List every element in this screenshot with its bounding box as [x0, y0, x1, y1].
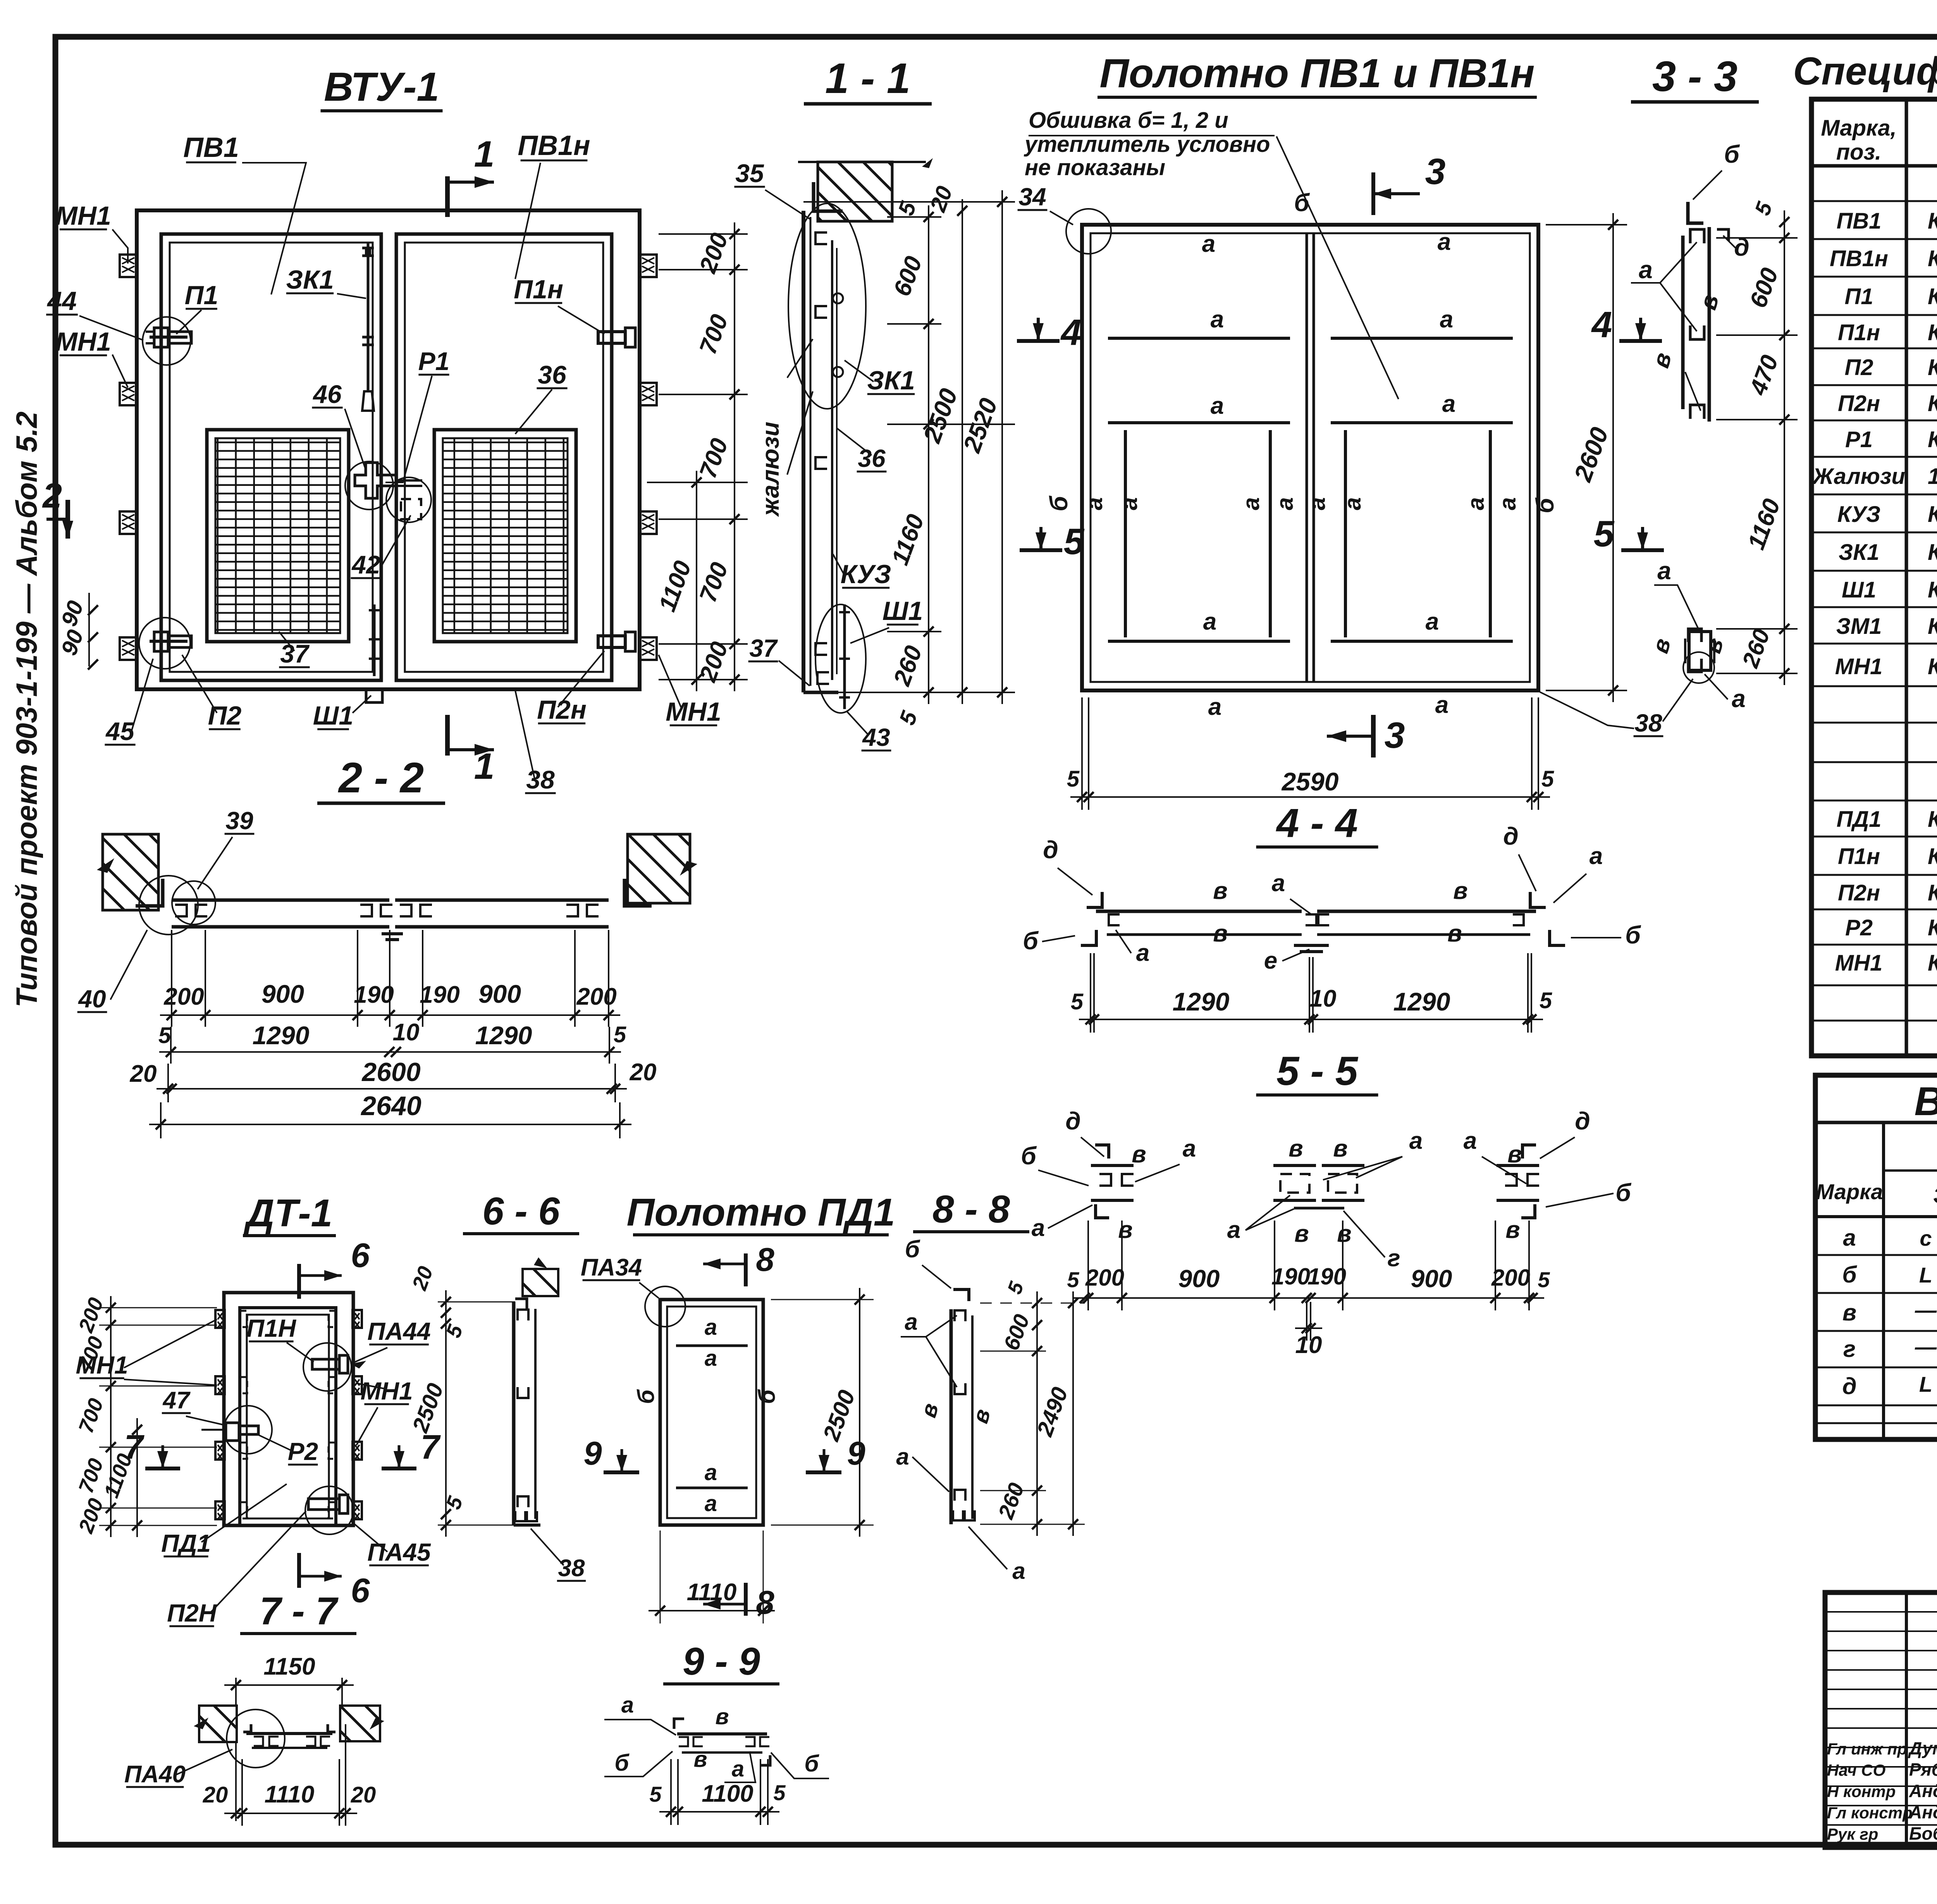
svg-text:а: а — [1440, 306, 1453, 333]
svg-text:Обшивка б= 1, 2 и: Обшивка б= 1, 2 и — [1029, 108, 1228, 133]
stamp outer — [1825, 1592, 1937, 1847]
svg-text:Полотно ПД1: Полотно ПД1 — [627, 1191, 895, 1234]
svg-text:а: а — [705, 1491, 717, 1516]
svg-text:б: б — [1023, 927, 1039, 955]
svg-text:в: в — [1294, 1221, 1309, 1247]
leaf profile vertical 1-1 — [802, 211, 805, 692]
door dashed brackets — [240, 1311, 247, 1327]
hinge P2 bottom-left — [150, 640, 188, 643]
section flag 8 top — [744, 1253, 748, 1286]
2-2 left frame angle — [136, 879, 163, 906]
svg-text:Рябуха: Рябуха — [1909, 1759, 1937, 1780]
svg-text:1290: 1290 — [1173, 987, 1230, 1016]
wall hatch block 1-1 — [818, 162, 892, 221]
panel PD1 rect — [660, 1300, 763, 1525]
corner circle 34 — [1066, 209, 1111, 254]
9-9 profile — [677, 1732, 767, 1735]
svg-text:Нач СО: Нач СО — [1827, 1761, 1885, 1779]
section flag 9 right — [806, 1470, 841, 1474]
svg-text:КМ - 15: КМ - 15 — [1928, 577, 1937, 603]
svg-text:5 - 5: 5 - 5 — [1276, 1048, 1359, 1094]
right louvre grille — [434, 430, 576, 642]
svg-text:10: 10 — [1310, 985, 1337, 1012]
svg-text:5: 5 — [1067, 766, 1080, 792]
jalousie plane 1-1 — [831, 240, 833, 680]
svg-text:ПД1: ПД1 — [161, 1529, 211, 1557]
2-2 dim chain row3 — [157, 1088, 627, 1090]
section flag 8 bottom — [744, 1583, 748, 1616]
svg-text:б: б — [905, 1236, 920, 1263]
section flag 1 top — [445, 176, 450, 217]
3-3 d bracket — [1717, 229, 1729, 241]
5-5 left node — [1095, 1145, 1109, 1159]
svg-text:8: 8 — [756, 1241, 774, 1278]
svg-text:а: а — [1227, 1217, 1240, 1243]
svg-text:а: а — [1238, 497, 1264, 510]
svg-text:П2н: П2н — [537, 695, 587, 725]
svg-text:в: в — [1213, 920, 1227, 947]
svg-text:Эскиз: Эскиз — [1933, 1183, 1937, 1208]
svg-text:а: а — [1202, 231, 1215, 257]
svg-text:3: 3 — [1425, 151, 1446, 192]
7-7 left wall block — [199, 1706, 237, 1742]
svg-text:5: 5 — [649, 1782, 662, 1806]
svg-text:1 - 1: 1 - 1 — [825, 55, 910, 102]
gate right dim chain 200-700-700-700-200 — [734, 222, 735, 691]
svg-text:б: б — [1045, 495, 1073, 511]
svg-text:4: 4 — [1591, 304, 1612, 345]
svg-text:Ведомость элементов: Ведомость элементов — [1914, 1079, 1937, 1124]
svg-text:45: 45 — [105, 717, 135, 745]
spec table column lines — [1905, 99, 1908, 1056]
svg-text:КМ - 16: КМ - 16 — [1928, 320, 1937, 345]
svg-text:20: 20 — [203, 1782, 228, 1808]
svg-text:ЗМ1: ЗМ1 — [1836, 614, 1882, 639]
svg-text:а: а — [1843, 1225, 1856, 1251]
svg-text:200: 200 — [576, 983, 616, 1010]
3-3 bottom node — [1689, 632, 1711, 670]
svg-text:д: д — [1043, 836, 1058, 864]
section flag 5 left — [1020, 548, 1062, 552]
6-6 wall hatch — [523, 1269, 558, 1296]
svg-text:46: 46 — [312, 380, 342, 408]
svg-text:—: — — [1915, 1334, 1937, 1359]
svg-text:б: б — [754, 1389, 780, 1404]
svg-text:КУЗ: КУЗ — [841, 559, 891, 589]
svg-text:1290: 1290 — [253, 1021, 310, 1050]
svg-text:а: а — [1012, 1558, 1025, 1584]
svg-text:200: 200 — [1085, 1265, 1124, 1291]
svg-text:МН1: МН1 — [666, 697, 721, 726]
2-2 right end channels — [566, 905, 578, 916]
2-2 center channels — [360, 905, 372, 916]
svg-text:38: 38 — [526, 765, 555, 794]
svg-text:П1н: П1н — [1838, 320, 1880, 345]
svg-text:1290: 1290 — [1393, 987, 1450, 1016]
svg-text:КМ - 14: КМ - 14 — [1928, 246, 1937, 271]
4-4 dim chain — [1079, 1019, 1543, 1020]
door outer frame — [224, 1293, 353, 1525]
svg-text:1.494-27 вып. 7: 1.494-27 вып. 7 — [1928, 464, 1937, 489]
door handle R2 node 47 — [226, 1423, 239, 1441]
svg-text:а: а — [1435, 692, 1448, 718]
svg-text:200: 200 — [163, 983, 204, 1010]
svg-text:б: б — [614, 1750, 630, 1776]
svg-text:П1н: П1н — [514, 275, 563, 304]
handle R1 — [355, 463, 396, 498]
section flag 7 left — [145, 1467, 180, 1470]
svg-text:Бобрук: Бобрук — [1909, 1823, 1937, 1844]
svg-text:П1Н: П1Н — [246, 1314, 297, 1342]
1-1 right dim chain 600-1160-260 — [928, 205, 929, 704]
svg-text:П2: П2 — [1845, 355, 1873, 380]
svg-text:поз.: поз. — [1836, 139, 1882, 165]
2-2 detail circles — [139, 876, 198, 935]
svg-text:а: а — [1442, 391, 1455, 417]
bubble ZK1 outline — [788, 203, 866, 409]
svg-text:ПВ1н: ПВ1н — [518, 130, 590, 161]
svg-text:П1: П1 — [185, 281, 218, 310]
vedomost row lines — [1815, 1254, 1937, 1256]
svg-text:4: 4 — [1060, 312, 1082, 353]
svg-text:в: в — [1447, 920, 1462, 947]
svg-text:5: 5 — [773, 1780, 786, 1805]
panel PV1 outer rect — [1082, 225, 1538, 690]
svg-text:Андриевская: Андриевская — [1909, 1802, 1937, 1822]
2-2 dim chain row1 — [160, 1014, 620, 1016]
5-5 middle nodes — [1273, 1164, 1316, 1167]
5-5 dim chain — [1073, 1297, 1544, 1299]
2-2 right frame angle — [624, 879, 652, 906]
label 38 panel — [1540, 692, 1634, 728]
8-8 strip — [950, 1309, 953, 1524]
7-7 leaf profile — [246, 1732, 332, 1735]
note leader line — [1276, 136, 1399, 399]
gate right leaf — [396, 234, 612, 680]
svg-text:б: б — [1294, 189, 1310, 217]
PD1 internal lines — [676, 1345, 748, 1347]
2-2 center pin — [382, 932, 403, 935]
svg-text:5: 5 — [158, 1023, 171, 1048]
svg-text:КМ - 15: КМ - 15 — [1928, 614, 1937, 639]
svg-text:8 - 8: 8 - 8 — [932, 1188, 1010, 1231]
svg-text:а: а — [1464, 1128, 1477, 1154]
svg-text:в: в — [1337, 1221, 1351, 1247]
svg-text:900: 900 — [1411, 1265, 1452, 1293]
panel right dim 2600 — [1612, 213, 1614, 702]
svg-text:в: в — [1507, 1141, 1522, 1168]
svg-text:Андриевская: Андриевская — [1909, 1781, 1937, 1801]
svg-text:а: а — [1208, 694, 1221, 720]
svg-text:900: 900 — [1178, 1265, 1220, 1293]
svg-text:ВТУ-1: ВТУ-1 — [324, 64, 439, 110]
svg-text:д: д — [1842, 1373, 1856, 1399]
door sub dim 1100 — [136, 1418, 138, 1537]
svg-text:П1н: П1н — [1838, 844, 1880, 869]
svg-text:П2Н: П2Н — [167, 1599, 217, 1627]
svg-text:КУЗ: КУЗ — [1837, 502, 1880, 527]
latch ZK1 rod — [367, 242, 370, 391]
shpingalet Sh1 bottom-center rod — [373, 604, 376, 676]
svg-text:38: 38 — [558, 1555, 585, 1582]
svg-text:КМ - 17: КМ - 17 — [1928, 502, 1937, 527]
4-4 left end — [1087, 892, 1102, 907]
svg-text:д: д — [1503, 822, 1519, 850]
5-5 dim 10 — [1295, 1327, 1322, 1329]
svg-text:1100: 1100 — [702, 1780, 753, 1807]
svg-text:ПВ1н: ПВ1н — [1830, 246, 1888, 271]
svg-text:1110: 1110 — [265, 1781, 315, 1808]
svg-text:МН1: МН1 — [55, 327, 111, 356]
svg-text:а: а — [732, 1756, 744, 1782]
PD1 dim 2500 — [859, 1288, 860, 1537]
gate outer frame — [137, 210, 640, 689]
svg-text:39: 39 — [225, 807, 253, 835]
bubble Sh1 outline — [815, 604, 866, 713]
svg-text:жалюзи: жалюзи — [757, 422, 784, 517]
section flag 9 left — [604, 1470, 639, 1474]
svg-text:Ш1: Ш1 — [882, 596, 923, 626]
vedomost header lines — [1882, 1122, 1885, 1439]
svg-text:10: 10 — [393, 1019, 420, 1046]
svg-text:ЗК1: ЗК1 — [867, 366, 915, 395]
svg-text:а: а — [1639, 256, 1653, 284]
8-8 dim chain inner — [1036, 1291, 1038, 1536]
svg-text:ЗК1: ЗК1 — [286, 265, 334, 294]
2-2 left end channels — [175, 905, 187, 916]
svg-text:КМ - 16: КМ - 16 — [1928, 950, 1937, 976]
svg-text:9: 9 — [583, 1435, 602, 1472]
8-8 dim 2490 — [1072, 1291, 1074, 1536]
svg-text:КМ - 14: КМ - 14 — [1928, 807, 1937, 832]
section flag 1 bottom — [445, 715, 450, 756]
svg-text:МН1: МН1 — [1835, 950, 1882, 976]
section flag 7 right — [382, 1467, 416, 1470]
7-7 dims below — [224, 1813, 357, 1814]
latch keeper dashed square 42 — [401, 499, 421, 519]
svg-text:2590: 2590 — [1281, 767, 1339, 796]
svg-text:а: а — [1272, 870, 1285, 897]
svg-text:а: а — [1340, 497, 1366, 510]
svg-text:КМ - 16: КМ - 16 — [1928, 844, 1937, 869]
svg-text:5: 5 — [1594, 513, 1615, 554]
MN1 plates left side — [120, 255, 137, 277]
svg-text:а: а — [1211, 306, 1224, 333]
svg-text:2640: 2640 — [360, 1091, 421, 1121]
svg-text:г: г — [1387, 1245, 1400, 1272]
svg-text:МН1: МН1 — [1835, 654, 1882, 679]
svg-text:ПД1: ПД1 — [1837, 807, 1882, 832]
svg-text:а: а — [1495, 497, 1521, 510]
door left dim chain — [110, 1296, 112, 1537]
8-8 top bracket b — [953, 1289, 969, 1301]
svg-text:7 - 7: 7 - 7 — [260, 1589, 339, 1633]
svg-text:а: а — [705, 1460, 717, 1485]
svg-text:Гл констр: Гл констр — [1827, 1804, 1913, 1822]
hinge P1n top-right — [598, 332, 625, 343]
svg-text:а: а — [1304, 497, 1330, 510]
svg-text:6: 6 — [351, 1236, 370, 1274]
svg-text:Р1: Р1 — [418, 347, 450, 375]
svg-text:а: а — [1426, 608, 1439, 635]
2-2 leaf bottom line — [172, 925, 389, 929]
svg-text:37: 37 — [749, 634, 778, 662]
svg-text:а: а — [621, 1692, 634, 1718]
svg-text:5: 5 — [1071, 989, 1084, 1014]
svg-text:а: а — [896, 1444, 909, 1470]
svg-text:2: 2 — [42, 477, 62, 515]
svg-text:а: а — [705, 1346, 717, 1371]
svg-text:ПВ1: ПВ1 — [183, 132, 239, 163]
3-3 dim chain — [1784, 210, 1785, 685]
panel vertical struts right half — [1344, 430, 1347, 637]
svg-text:Спецификация изделий на оди: Спецификация изделий на один элемент — [1793, 50, 1937, 93]
svg-text:Р2: Р2 — [288, 1437, 318, 1465]
svg-text:КМ - 16: КМ - 16 — [1928, 284, 1937, 309]
svg-text:20: 20 — [130, 1060, 157, 1087]
svg-text:900: 900 — [261, 980, 304, 1008]
svg-text:Думан: Думан — [1908, 1738, 1937, 1758]
svg-text:в: в — [1118, 1217, 1132, 1243]
section flag 4 right — [1619, 339, 1662, 343]
svg-text:а: а — [1183, 1135, 1196, 1162]
9-9 dims — [659, 1811, 779, 1813]
svg-text:д: д — [1575, 1107, 1590, 1135]
svg-text:Р2: Р2 — [1845, 915, 1873, 940]
svg-text:—: — — [1915, 1298, 1937, 1322]
svg-text:190: 190 — [1307, 1264, 1346, 1289]
svg-text:а: а — [1032, 1215, 1045, 1241]
4-4 leaf profile top lines — [1096, 910, 1302, 913]
svg-text:43: 43 — [862, 723, 890, 751]
panel internal horizontals right half — [1331, 337, 1513, 340]
svg-text:КМ - 15: КМ - 15 — [1928, 540, 1937, 565]
svg-text:а: а — [1732, 685, 1746, 713]
C-brackets on 1-1 profile — [815, 232, 827, 244]
2-2 dim chain row2 — [159, 1051, 621, 1053]
svg-text:36: 36 — [538, 360, 567, 389]
1-1 dim 2500 — [962, 199, 963, 704]
svg-text:КМ - 16: КМ - 16 — [1928, 427, 1937, 452]
svg-text:б: б — [1531, 497, 1559, 513]
section flag 2 left — [65, 500, 70, 539]
svg-text:9 - 9: 9 - 9 — [683, 1640, 760, 1683]
svg-text:Н контр: Н контр — [1827, 1782, 1896, 1801]
svg-text:9: 9 — [847, 1435, 865, 1472]
door MN1 plates left — [215, 1310, 225, 1328]
svg-text:Ш1: Ш1 — [1842, 577, 1876, 603]
svg-text:4 - 4: 4 - 4 — [1276, 801, 1358, 846]
svg-text:3 - 3: 3 - 3 — [1652, 53, 1737, 100]
svg-text:е: е — [1264, 947, 1277, 974]
svg-text:1150: 1150 — [263, 1653, 315, 1680]
svg-text:а: а — [1657, 557, 1671, 585]
svg-text:Р1: Р1 — [1845, 427, 1873, 452]
door MN1 plates right — [353, 1310, 362, 1328]
3-3 upper strip — [1681, 236, 1685, 409]
door bottom hinge P2n — [308, 1499, 339, 1510]
svg-text:б: б — [1625, 921, 1641, 949]
svg-text:б: б — [1724, 140, 1740, 168]
svg-text:в: в — [1505, 1217, 1520, 1243]
svg-text:в: в — [1213, 878, 1227, 904]
svg-text:утеплитель условно: утеплитель условно — [1024, 132, 1270, 157]
svg-text:Полотно ПВ1 и ПВ1н: Полотно ПВ1 и ПВ1н — [1099, 51, 1534, 96]
svg-text:а: а — [1272, 497, 1298, 510]
svg-text:190: 190 — [1271, 1264, 1310, 1289]
svg-text:в: в — [693, 1747, 707, 1772]
panel internal horizontals left half — [1108, 337, 1290, 340]
svg-text:5: 5 — [1540, 988, 1552, 1013]
svg-text:5: 5 — [1541, 766, 1554, 792]
svg-text:5: 5 — [1067, 1267, 1079, 1292]
svg-text:ПВ1: ПВ1 — [1837, 208, 1882, 234]
svg-text:не показаны: не показаны — [1025, 155, 1165, 180]
svg-text:КМ - 14: КМ - 14 — [1928, 208, 1937, 234]
2-2 leaf top line — [172, 899, 389, 902]
section flag 5 right — [1621, 548, 1664, 552]
door hinge P1n — [312, 1359, 339, 1369]
2-2 right wall block — [628, 834, 690, 903]
svg-text:Марка,: Марка, — [1821, 115, 1896, 141]
section flag 6 top — [297, 1264, 301, 1299]
svg-text:КМ - 16: КМ - 16 — [1928, 880, 1937, 906]
svg-text:б: б — [1615, 1179, 1632, 1207]
svg-text:а: а — [705, 1315, 717, 1340]
svg-text:37: 37 — [280, 639, 310, 668]
section flag 4 left — [1017, 339, 1060, 343]
section flag 3 top — [1371, 172, 1375, 215]
svg-text:20: 20 — [351, 1782, 376, 1808]
svg-text:в: в — [1132, 1141, 1146, 1168]
svg-text:10: 10 — [1295, 1332, 1322, 1358]
panel center divider — [1306, 233, 1308, 682]
svg-text:ПА44: ПА44 — [367, 1317, 430, 1345]
svg-text:20: 20 — [630, 1059, 657, 1086]
svg-text:МН1: МН1 — [360, 1377, 413, 1405]
spec table outer border — [1811, 99, 1937, 1056]
svg-text:190: 190 — [354, 981, 394, 1008]
svg-text:а: а — [1136, 940, 1149, 966]
svg-text:в: в — [1288, 1135, 1303, 1162]
svg-text:а: а — [1081, 497, 1107, 510]
svg-text:а: а — [905, 1309, 917, 1335]
7-7 right wall block — [340, 1706, 380, 1741]
svg-text:а: а — [1438, 229, 1451, 255]
svg-text:а: а — [1211, 393, 1224, 419]
gate left leaf — [161, 234, 381, 680]
svg-text:35: 35 — [735, 159, 764, 188]
svg-text:5: 5 — [614, 1022, 626, 1047]
svg-text:с: с — [1920, 1226, 1932, 1250]
svg-text:200: 200 — [1491, 1265, 1530, 1291]
svg-text:190: 190 — [420, 981, 459, 1008]
svg-text:КМ - 16: КМ - 16 — [1928, 355, 1937, 380]
svg-text:ПА34: ПА34 — [581, 1254, 642, 1281]
svg-text:в: в — [1453, 878, 1467, 904]
hinge P1 top-left — [150, 336, 188, 339]
svg-text:L: L — [1919, 1263, 1932, 1287]
svg-text:П2н: П2н — [1838, 880, 1880, 906]
svg-text:а: а — [1463, 497, 1489, 510]
svg-text:П2н: П2н — [1838, 391, 1880, 416]
svg-text:5: 5 — [1538, 1267, 1550, 1292]
door leaf — [240, 1308, 336, 1525]
svg-text:б: б — [633, 1389, 659, 1404]
panel bottom dim 2590 — [1070, 796, 1550, 798]
4-4 right end — [1530, 892, 1546, 907]
1-1 dim 2520 — [1001, 190, 1003, 704]
